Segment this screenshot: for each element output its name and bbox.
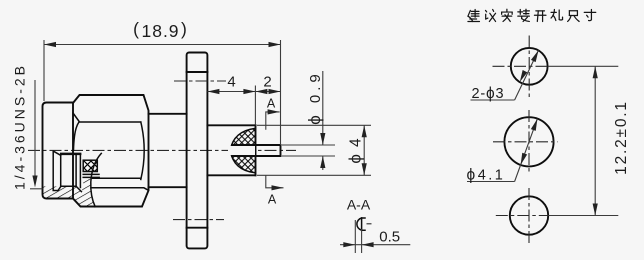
- bottom hole: [510, 196, 548, 234]
- svg-text:4: 4: [227, 74, 235, 91]
- dielectric crosshatch block: [83, 160, 97, 171]
- insulator section D-arc: [230, 128, 255, 173]
- dimension 2: [255, 91, 280, 93]
- thread callout leader: [34, 80, 36, 184]
- svg-text:ϕ 0.9: ϕ 0.9: [305, 70, 324, 125]
- front socket detail (sectioned lower half): [53, 152, 81, 192]
- svg-text:12.2±0.1: 12.2±0.1: [613, 100, 630, 175]
- flange plate: [187, 53, 208, 249]
- pin flat cross-section: [357, 218, 365, 230]
- extension line left: [43, 40, 45, 101]
- title (hanzi): [468, 9, 596, 21]
- extension line right (pin end): [280, 40, 282, 145]
- hex nut outline: [73, 95, 149, 207]
- svg-text:1/4-36UNS-2B: 1/4-36UNS-2B: [12, 63, 28, 190]
- svg-text:A-A: A-A: [347, 197, 371, 213]
- hex facet line upper: [73, 113, 141, 122]
- phi0.9 dimension: [282, 144, 335, 146]
- centerline main axis: [28, 149, 296, 151]
- svg-text:(18.9 ): (18.9 ): [133, 19, 187, 41]
- sectioned outer wall hatch band: [43, 178, 96, 207]
- hex interior line lower: [91, 188, 149, 191]
- hex face junction line: [72, 103, 74, 199]
- phi4 dimension: [257, 124, 371, 126]
- svg-text:A: A: [267, 97, 276, 111]
- middle hole phi4.1: [504, 117, 553, 166]
- insulator crosshatch: [230, 128, 255, 173]
- 12.2 +-0.1 dimension: [548, 65, 618, 67]
- dimension 4: [207, 91, 255, 93]
- hex middle facet arc right: [141, 122, 144, 180]
- flange hole axis bottom: [173, 219, 224, 221]
- rear barrel: [149, 113, 187, 115]
- dielectric bushing phi4: [207, 124, 255, 126]
- center pin phi0.9: [232, 144, 281, 146]
- coupling-nut barrel (threaded 1/4-36UNS-2B): [43, 103, 74, 199]
- svg-text:2-ϕ3: 2-ϕ3: [472, 85, 505, 102]
- bore profile arc in hex: [91, 153, 102, 206]
- flange hole axis top: [174, 80, 226, 82]
- hex facet line lower: [93, 177, 141, 179]
- svg-text:ϕ4: ϕ4: [346, 131, 365, 163]
- top hole 2-phi3: [511, 48, 548, 85]
- svg-text:2: 2: [263, 74, 271, 91]
- hex middle facet arc left upper: [74, 122, 79, 150]
- svg-text:ϕ4.1: ϕ4.1: [467, 167, 506, 184]
- svg-text:A: A: [268, 193, 277, 207]
- svg-text:0.5: 0.5: [379, 229, 400, 246]
- extension line at insulator face: [254, 86, 256, 126]
- dimension (18.9): [44, 44, 281, 46]
- section marker A bottom: [266, 175, 284, 188]
